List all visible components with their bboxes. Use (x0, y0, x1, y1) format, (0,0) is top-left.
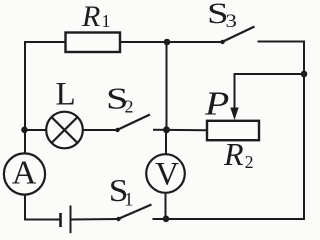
battery short plate (59, 213, 62, 227)
resistor R1 (66, 33, 121, 53)
lamp cross stroke 1 (52, 117, 78, 143)
svg-text:1: 1 (124, 189, 134, 210)
wire voltmeter to bottom (165, 193, 167, 219)
wire lamp branch left (24, 129, 47, 131)
svg-text:A: A (12, 155, 37, 192)
lamp cross stroke 2 (52, 117, 78, 143)
switch S3 pivot (220, 40, 224, 44)
wire bottom right (153, 218, 306, 220)
wire left vertical upper (24, 41, 26, 154)
switch S1 blade (118, 205, 152, 220)
rheostat R2 box (207, 121, 259, 140)
switch S2 pivot (115, 128, 119, 132)
wire right vertical (303, 41, 305, 221)
wire middle vertical upper (166, 42, 168, 130)
svg-text:V: V (155, 156, 179, 192)
svg-text:P: P (204, 85, 229, 123)
wiper wire horizontal (235, 73, 305, 75)
wiper wire vertical (234, 73, 236, 110)
wire middle vertical to voltmeter (165, 130, 167, 155)
switch S2 blade (117, 115, 150, 131)
ammeter A circle (4, 153, 45, 194)
lamp L circle (46, 112, 83, 149)
voltmeter V circle (146, 154, 185, 193)
wire bottom left (24, 219, 60, 221)
junction node top middle (164, 39, 171, 46)
svg-text:L: L (56, 77, 76, 113)
wire S3 right terminal (258, 41, 305, 43)
svg-text:1: 1 (102, 11, 111, 31)
switch S3 blade (222, 27, 255, 43)
svg-text:R: R (81, 0, 100, 33)
junction node right wiper (301, 71, 308, 78)
wire bottom middle (71, 218, 118, 221)
svg-text:2: 2 (245, 152, 254, 172)
wire top-left horizontal (24, 41, 66, 43)
junction node bottom (163, 216, 170, 223)
junction node left lamp branch (21, 127, 28, 134)
wire left vertical lower (24, 195, 26, 221)
battery long plate (70, 206, 72, 234)
switch S1 pivot (116, 217, 120, 221)
wire lamp to S2 (83, 129, 117, 131)
svg-text:3: 3 (226, 10, 237, 32)
wire R1 to S3 (120, 41, 222, 43)
wiper arrowhead P (230, 108, 238, 121)
junction node middle lamp branch (163, 126, 170, 133)
wire S2 right to R2 (153, 129, 207, 132)
svg-text:2: 2 (125, 96, 134, 116)
svg-text:R: R (223, 136, 244, 172)
